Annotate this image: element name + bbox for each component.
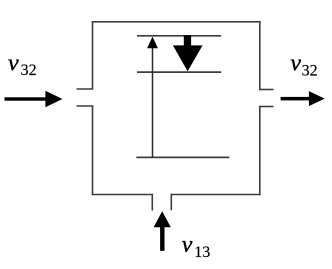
svg-text:ν: ν [8, 51, 19, 77]
node: energy level 1 (lower) [136, 156, 229, 158]
wire: cavity left wall lower segment [92, 106, 94, 195]
wire: cavity right wall lower segment [259, 107, 261, 196]
node: pump input arrowhead [154, 211, 171, 227]
svg-text:ν: ν [290, 51, 301, 77]
wire: left port lower tick [77, 105, 94, 107]
wire: output signal arrow shaft (right) [281, 97, 310, 101]
node: pump transition arrowhead [147, 37, 158, 49]
wire: input signal arrow shaft (left) [5, 97, 47, 100]
wire: cavity bottom wall right segment [171, 194, 260, 196]
wire: cavity bottom wall left segment [92, 194, 153, 196]
svg-text:13: 13 [194, 244, 210, 261]
wire: cavity right wall upper segment [259, 21, 261, 90]
wire: cavity left wall upper segment [92, 21, 94, 89]
wire: left port upper tick [77, 88, 94, 90]
svg-text:32: 32 [21, 62, 37, 79]
svg-text:32: 32 [302, 62, 318, 79]
wire: pump transition arrow shaft (level 1 to level 3) [152, 48, 154, 158]
node: input signal arrowhead [45, 91, 62, 107]
node: energy level 3 (upper) [137, 35, 221, 37]
wire: pump input arrow shaft (bottom) [160, 226, 164, 251]
node: emission transition arrowhead [173, 45, 203, 71]
wire: emission transition arrow shaft (level 3 to level 2) [184, 35, 191, 45]
svg-text:ν: ν [182, 232, 193, 258]
node: energy level 2 (middle) [137, 71, 221, 73]
wire: right port upper tick [259, 89, 274, 91]
wire: bottom port right tick [170, 194, 172, 211]
wire: right port lower tick [259, 106, 274, 108]
wire: cavity top wall [92, 21, 261, 23]
wire: bottom port left tick [151, 194, 153, 211]
node: output signal arrowhead [309, 91, 325, 106]
